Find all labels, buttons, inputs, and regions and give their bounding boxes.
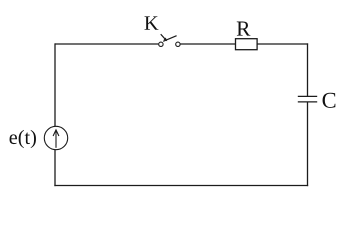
wire left lower segment [54,150,56,186]
source e(t) circle [44,126,67,149]
wire left upper segment [54,43,56,126]
wire right upper segment [307,43,309,96]
capacitor C top plate [298,95,317,97]
switch K blade [163,36,176,42]
wire top-left segment [55,43,158,45]
svg-text:C: C [322,88,337,113]
switch K right contact [176,42,180,46]
capacitor C bottom plate [298,101,317,103]
svg-text:K: K [144,13,159,35]
wire switch-to-resistor segment [180,43,235,45]
switch K left contact [159,42,163,46]
wire bottom segment [54,185,308,187]
svg-text:R: R [236,17,251,41]
wire right lower segment [307,102,309,186]
wire resistor-to-corner segment [257,43,308,45]
switch K closing arrow [161,34,168,41]
svg-text:e(t): e(t) [9,127,37,149]
source e(t) arrow [53,130,59,148]
resistor R [236,39,258,50]
